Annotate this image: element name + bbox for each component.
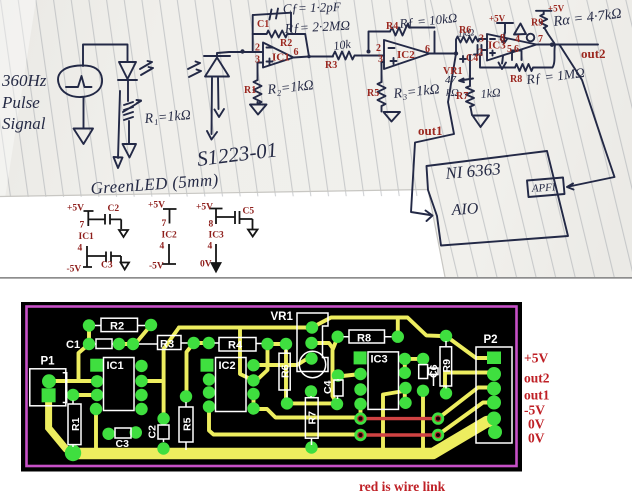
pad R9bot <box>440 387 452 399</box>
paper background <box>0 0 632 277</box>
pad IC3-L4 <box>354 398 366 410</box>
svg-text:red is wire link: red is wire link <box>359 479 446 494</box>
svg-text:0V: 0V <box>200 260 212 270</box>
resistor R9 vertical <box>540 14 554 44</box>
IC2 +5V rail pin7 <box>163 209 177 224</box>
pads <box>42 319 502 461</box>
pad IC3-R4 <box>399 397 411 409</box>
wire R8L to C4 <box>333 337 338 404</box>
svg-text:IC3: IC3 <box>488 40 506 52</box>
IC1 -5V rail pin4 <box>83 246 92 267</box>
svg-text:+5V: +5V <box>489 14 506 24</box>
pad IC2-1 square <box>201 359 214 372</box>
pad bigGND <box>65 445 81 461</box>
outline IC3 <box>368 352 399 410</box>
svg-text:3: 3 <box>479 34 484 45</box>
wire LED to R1 <box>127 80 129 101</box>
svg-text:7: 7 <box>80 221 85 231</box>
svg-text:R6: R6 <box>459 25 471 36</box>
op-amp IC1 <box>263 43 294 68</box>
wire R1 down + arrowhead <box>123 121 137 158</box>
wire out1 ring to P2 <box>438 388 490 419</box>
svg-text:R2: R2 <box>110 321 124 333</box>
pad IC2-R4 <box>247 402 259 414</box>
IC1 +5V rail pin7 <box>84 211 94 226</box>
wire IC2 pin4 to link2 <box>209 407 361 435</box>
svg-text:R3: R3 <box>160 339 174 351</box>
op-amp IC3 <box>487 34 537 61</box>
svg-text:R1: R1 <box>244 85 256 96</box>
wire pin3 to R1s <box>258 63 264 81</box>
outline VR1 <box>297 313 328 372</box>
svg-text:R2: R2 <box>280 38 292 49</box>
wire source-bottom <box>83 97 85 128</box>
+5V rail to pin8 <box>497 23 513 44</box>
outline C4 <box>337 379 340 399</box>
svg-text:C5: C5 <box>243 207 255 217</box>
wire feedback right vertical <box>290 13 292 32</box>
pad R2R <box>145 319 157 331</box>
pad P2-3 <box>487 382 501 396</box>
circled mark <box>527 34 535 42</box>
resistor R7 vertical <box>466 76 474 115</box>
outline R5 <box>185 402 187 450</box>
wire IC1 pad to rail <box>94 409 98 448</box>
ground after C2 <box>119 230 128 237</box>
pad R3L <box>127 338 139 350</box>
pad R7bot <box>305 441 317 453</box>
wire under R6 <box>284 344 288 403</box>
svg-text:VR1: VR1 <box>443 66 462 77</box>
svg-text:R4: R4 <box>386 21 398 32</box>
svg-text:+5V: +5V <box>548 4 565 14</box>
pulse source V1 <box>58 65 102 97</box>
outline R3 <box>139 343 188 344</box>
svg-text:R9: R9 <box>531 18 543 29</box>
outline C6 <box>419 365 428 379</box>
capacitor C1 <box>270 9 279 20</box>
pad P2-2 <box>487 367 501 381</box>
long arrow LED to label <box>114 91 123 168</box>
svg-text:-5V: -5V <box>524 403 545 418</box>
board magenta border <box>27 307 517 467</box>
pad IC1-R3 <box>135 389 147 401</box>
wire top right trace <box>312 318 446 337</box>
wire IC2R to VR1 <box>254 359 312 366</box>
POWER-STRIP-LABELS <box>67 201 255 275</box>
svg-text:R9: R9 <box>441 359 453 373</box>
pad R6top <box>280 338 292 350</box>
IC3 0V pin4 arrow <box>215 244 217 264</box>
wire R3R down to R5 <box>187 343 194 397</box>
wire IC3R pad to rail <box>421 391 425 448</box>
board background <box>21 302 522 472</box>
svg-text:2: 2 <box>478 48 483 59</box>
svg-text:C2: C2 <box>108 204 120 214</box>
pad R8L <box>332 331 344 343</box>
wire P1 pad to IC1 <box>49 379 97 383</box>
PCB <box>21 302 522 472</box>
svg-text:8: 8 <box>209 220 214 230</box>
svg-text:R7: R7 <box>307 411 319 425</box>
svg-text:R4: R4 <box>228 340 243 352</box>
pad VR1-2 <box>305 337 317 349</box>
svg-text:IC2: IC2 <box>162 231 178 241</box>
resistor R1 (hatch) <box>123 100 141 120</box>
svg-text:2: 2 <box>376 43 381 54</box>
outline R2 <box>95 325 145 327</box>
LED light arrows <box>140 61 153 75</box>
node B junction dot <box>367 50 371 54</box>
resistor R4 <box>390 24 435 36</box>
outline R6 <box>286 350 287 398</box>
svg-text:AIO: AIO <box>450 200 479 219</box>
wire main down to IC2 <box>240 330 252 380</box>
wire neck R4R <box>268 342 287 346</box>
IC2 -5V rail pin4 <box>162 244 176 264</box>
pad R1top <box>67 389 79 401</box>
pad R8R <box>392 331 404 343</box>
pad R4L <box>203 337 215 349</box>
SCHEMATIC-HANDTEXT <box>1 0 623 219</box>
wire IC2 pin to link1 <box>254 409 361 418</box>
svg-text:IC1: IC1 <box>107 360 124 372</box>
pulse source waveform glyph <box>66 76 92 87</box>
svg-text:-5V: -5V <box>67 265 82 275</box>
wire R4R down to IC2 <box>259 344 268 378</box>
capacitor C2 <box>88 214 121 229</box>
svg-text:R5: R5 <box>182 417 194 431</box>
pad IC2-R2 <box>247 374 259 386</box>
svg-text:IC1: IC1 <box>79 232 95 242</box>
wire IC1 out to R3 <box>294 57 334 58</box>
power arrow symbol <box>514 24 526 35</box>
capacitor C4 <box>474 45 487 55</box>
svg-text:0V: 0V <box>528 417 545 432</box>
svg-text:2: 2 <box>255 43 260 54</box>
outline R1 <box>72 401 74 448</box>
svg-text:3: 3 <box>255 55 260 66</box>
svg-text:R8: R8 <box>357 333 371 345</box>
wire VR1 wiper to R8L <box>312 343 333 348</box>
APFI box <box>527 178 565 198</box>
pad C2bot <box>157 442 169 454</box>
pad R6bot <box>281 397 293 409</box>
svg-text:R5: R5 <box>367 88 379 99</box>
outline R7 <box>310 396 313 445</box>
wire P1 square to big pad (thick) <box>49 398 66 449</box>
svg-text:+5V: +5V <box>196 203 213 213</box>
svg-text:C2: C2 <box>147 425 159 439</box>
svg-text:R7: R7 <box>456 91 468 102</box>
svg-text:6: 6 <box>425 44 430 55</box>
pad IC1-L3 <box>91 389 103 401</box>
wire IC3R neck2 <box>403 390 407 403</box>
svg-text:+5V: +5V <box>148 201 165 211</box>
red wire link 1 <box>361 417 439 420</box>
wire R1 top row <box>73 393 97 397</box>
pad R5top <box>180 390 192 402</box>
wire IC3R top neck <box>405 357 423 361</box>
svg-text:Pulse: Pulse <box>1 93 40 112</box>
outline R9 <box>445 341 447 389</box>
pad C3L <box>102 428 114 440</box>
svg-text:VR1: VR1 <box>271 311 294 323</box>
pad R2L <box>83 319 95 331</box>
svg-text:7: 7 <box>538 34 543 45</box>
wire C4top to IC3 <box>338 374 361 377</box>
svg-text:IC1: IC1 <box>272 52 290 64</box>
ring pad link2L <box>354 429 366 441</box>
outline IC2 <box>216 358 247 412</box>
pad IC1-L2 <box>91 375 103 387</box>
pad IC2-R1 <box>247 359 259 371</box>
svg-text:IC2: IC2 <box>397 49 415 61</box>
pad IC1-1 square <box>90 359 103 372</box>
pad IC1-R1 <box>135 360 147 372</box>
IC3 +5V rail pin8 <box>210 209 223 225</box>
pad P2-4 <box>487 396 501 410</box>
ring pad link2R <box>432 429 444 441</box>
IC3 pin4 down arrow <box>499 56 507 69</box>
svg-text:IC3: IC3 <box>209 231 225 241</box>
ground below source <box>74 129 94 145</box>
photodiode light arrows <box>188 62 201 78</box>
divider line <box>0 277 632 279</box>
svg-text:C6: C6 <box>428 364 440 378</box>
wire +5V to P2 <box>446 336 490 358</box>
svg-text:C4: C4 <box>322 380 334 394</box>
svg-text:P2: P2 <box>484 334 498 346</box>
svg-text:IC2: IC2 <box>219 360 236 372</box>
pad IC1-L4 <box>90 403 102 415</box>
pad R3R <box>188 337 200 349</box>
svg-text:3: 3 <box>378 54 383 65</box>
pad P1 square <box>42 388 56 402</box>
wire source-top to LED <box>83 45 128 67</box>
svg-text:out1: out1 <box>418 123 443 138</box>
capacitor C5 <box>216 211 253 229</box>
wire R8R up <box>396 319 400 337</box>
PCB right red labels <box>359 351 550 495</box>
pad IC3-L3 <box>354 383 366 395</box>
wire out1 down to NI box <box>411 54 456 222</box>
wire IC3 bottom to rail <box>383 391 404 450</box>
pad IC3-L2 <box>354 368 366 380</box>
pad C6top <box>417 353 429 365</box>
pad C3R <box>130 426 142 438</box>
ground IC3 stage <box>473 116 490 128</box>
pad R4R <box>261 338 273 350</box>
svg-text:0V: 0V <box>528 431 545 446</box>
svg-text:APFI: APFI <box>530 181 557 195</box>
svg-text:R1: R1 <box>70 417 82 431</box>
svg-text:IC3: IC3 <box>371 354 388 366</box>
outline P1 <box>30 369 66 406</box>
pad IC3-R2 <box>399 367 411 379</box>
wire IC2 pin3 down <box>382 62 385 82</box>
svg-text:R6: R6 <box>280 364 292 378</box>
resistor R3 <box>333 52 384 60</box>
wire IC2R lower neck <box>252 394 256 409</box>
pad P2-1 square <box>487 352 501 365</box>
pad IC2-L2 <box>203 373 215 385</box>
resistor R5 vertical <box>378 82 386 112</box>
pad IC3-R1 <box>399 353 411 365</box>
wire C1L to P1 row <box>79 344 90 381</box>
wire main top trace <box>179 326 312 330</box>
svg-text:C4: C4 <box>466 53 478 64</box>
outline C3 <box>115 428 131 438</box>
LED D1 <box>118 62 137 80</box>
pad P2-5 <box>487 412 501 426</box>
outline C1 <box>95 343 113 345</box>
pad P2-6 <box>488 425 502 439</box>
pad P1 <box>42 374 56 388</box>
photodiode D2 <box>204 56 230 77</box>
wire -5V ring to P2 <box>438 403 490 436</box>
ground after C3 <box>121 263 130 270</box>
capacitor C3 <box>87 252 121 263</box>
svg-text:R3: R3 <box>325 60 337 71</box>
pad VR1-1 <box>306 321 318 333</box>
outline R4 <box>215 342 262 345</box>
wire IC3 out <box>537 44 599 46</box>
svg-text:1kΩ: 1kΩ <box>480 85 501 101</box>
outline IC1 <box>104 358 135 411</box>
outline P2 <box>476 347 512 443</box>
bottom ground rail (thick) <box>72 422 492 454</box>
SCHEMATIC-INK <box>58 9 614 246</box>
outline C2 <box>163 425 165 442</box>
pad C2top <box>157 412 169 424</box>
wire IC2 feedback <box>369 32 391 53</box>
NI 6363 box <box>427 151 569 246</box>
pad R7top <box>305 385 317 397</box>
svg-text:out1: out1 <box>524 388 550 403</box>
red wire link 2 <box>361 433 439 436</box>
svg-text:4: 4 <box>160 242 165 252</box>
svg-text:C1: C1 <box>66 339 80 351</box>
ground IC1 <box>250 105 267 115</box>
op-amp IC2 <box>384 40 430 69</box>
photodiode arrows down <box>207 78 224 140</box>
pad C4bot <box>331 398 343 410</box>
svg-text:R8: R8 <box>510 74 522 85</box>
ring pad link1R <box>432 412 444 424</box>
pad IC3-1 square <box>354 351 367 364</box>
outline R8 <box>344 336 392 338</box>
wire IC3L neck <box>359 404 363 419</box>
pad IC2-L4 <box>203 400 215 412</box>
pad IC2-L3 <box>203 386 215 398</box>
wire R2R to R3L <box>136 325 151 343</box>
pad R9bot2 <box>417 385 429 397</box>
pad C4top <box>332 369 344 381</box>
pad +5Vtop <box>440 330 452 342</box>
SCHEMATIC-REDLABELS <box>244 4 606 139</box>
svg-text:4: 4 <box>208 242 213 252</box>
wire neck C1R-R3L <box>119 342 133 346</box>
svg-text:10k: 10k <box>332 37 352 53</box>
ring pad link1L <box>354 412 366 424</box>
svg-text:5: 5 <box>507 44 512 55</box>
pad VR1-3 <box>305 352 317 364</box>
svg-text:out2: out2 <box>581 46 606 61</box>
svg-text:P1: P1 <box>41 356 56 368</box>
svg-text:+5V: +5V <box>67 204 84 214</box>
svg-text:Signal: Signal <box>2 114 46 133</box>
resistor R6 <box>456 37 487 54</box>
ground after C5 <box>248 230 258 237</box>
wire feedback left vertical <box>253 13 291 51</box>
feedback R8 loop <box>480 56 515 68</box>
pad IC2-R3 <box>247 388 259 400</box>
pad IC3-R3 <box>399 382 411 394</box>
node A junction dot <box>240 49 244 53</box>
svg-text:C3: C3 <box>116 438 130 450</box>
wire neck R3R-R4L <box>194 341 209 345</box>
svg-text:7: 7 <box>162 219 167 229</box>
pad IC1-R2 <box>135 375 147 387</box>
wire IC1R to riser <box>142 379 164 383</box>
POWER-STRIP <box>83 209 258 272</box>
wire IC2 out node <box>430 53 457 55</box>
wire out2 down to APFI <box>560 45 615 190</box>
resistor R1s vertical <box>254 80 262 104</box>
pad C1R <box>113 338 125 350</box>
wire P2 0V neck <box>492 419 496 432</box>
VR1 wiper arrow <box>459 55 473 82</box>
svg-text:6: 6 <box>514 44 519 55</box>
wire photodiode to IC1 input <box>217 52 263 56</box>
svg-text:6: 6 <box>294 47 299 58</box>
svg-text:360Hz: 360Hz <box>1 71 47 90</box>
ground IC2 <box>384 112 401 122</box>
svg-text:out2: out2 <box>524 371 550 386</box>
svg-text:C1: C1 <box>257 19 269 30</box>
svg-text:+5V: +5V <box>524 351 548 366</box>
svg-text:-5V: -5V <box>149 262 164 272</box>
bracket under pins 5-6 <box>512 51 522 61</box>
wire R9B out2 to P2 <box>445 373 490 394</box>
R9 +5V tee <box>536 11 552 14</box>
svg-text:Cƒ= 1·2pF: Cƒ= 1·2pF <box>283 0 342 16</box>
wire R6bot to C4bot <box>287 401 337 405</box>
pad C1L <box>83 338 95 350</box>
resistor R2 <box>253 31 309 57</box>
svg-text:4: 4 <box>78 244 83 254</box>
wire R2L-C1L <box>87 326 91 345</box>
svg-text:C3: C3 <box>101 261 113 271</box>
wire C2 riser to main trace <box>164 328 179 419</box>
outline C5 tee <box>428 375 439 387</box>
wire IC3R neck1 <box>403 359 407 374</box>
pad IC1-R4 <box>135 403 147 415</box>
